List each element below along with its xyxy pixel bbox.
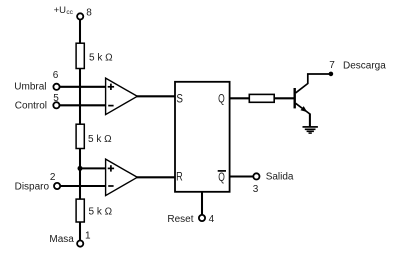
svg-text:Masa: Masa bbox=[49, 234, 74, 245]
terminal Control pin 5 bbox=[15, 93, 60, 112]
wire: bus R1 bottom to R2 top bbox=[79, 68, 81, 124]
terminal Masa pin 1 bbox=[49, 231, 91, 247]
svg-text:2: 2 bbox=[50, 172, 56, 183]
svg-text:8: 8 bbox=[86, 8, 92, 19]
op-amp U1 comparator bbox=[106, 78, 138, 115]
terminal Reset pin 4 bbox=[167, 214, 214, 225]
svg-text:R: R bbox=[176, 171, 183, 183]
resistor R4 base resistor bbox=[249, 94, 274, 102]
wire: Qbar output to Salida terminal bbox=[230, 175, 254, 177]
wire: Umbral (pin 6) to comparator U1 + input bbox=[60, 86, 106, 88]
wire: R4 to transistor base bbox=[274, 97, 294, 99]
svg-text:Umbral: Umbral bbox=[14, 81, 46, 92]
terminal Umbral pin 6 bbox=[14, 70, 59, 92]
svg-text:Reset: Reset bbox=[167, 214, 193, 225]
ground bbox=[303, 127, 318, 133]
svg-text:5 k Ω: 5 k Ω bbox=[88, 134, 112, 145]
svg-text:Control: Control bbox=[15, 101, 47, 112]
terminal +Ucc pin 8 bbox=[54, 5, 93, 20]
resistor R3 5k bbox=[76, 199, 113, 222]
svg-text:Q: Q bbox=[218, 93, 225, 105]
wire: divider node to comparator U2 + input bbox=[80, 167, 106, 169]
svg-text:1: 1 bbox=[85, 231, 91, 242]
svg-text:4: 4 bbox=[209, 214, 215, 225]
svg-text:Salida: Salida bbox=[266, 172, 294, 183]
wire: R3 bottom to Masa terminal bbox=[79, 222, 81, 241]
svg-text:3: 3 bbox=[253, 184, 259, 195]
op-amp U2 comparator bbox=[106, 159, 138, 196]
terminal Descarga pin 7 bbox=[329, 60, 387, 76]
svg-text:5 k Ω: 5 k Ω bbox=[89, 52, 113, 63]
resistor R1 5k bbox=[76, 43, 113, 68]
svg-text:5 k Ω: 5 k Ω bbox=[89, 206, 113, 217]
wire: Control (pin 5) to comparator U1 - input bbox=[60, 104, 106, 106]
wire: Q output to R4 bbox=[230, 97, 250, 99]
svg-text:6: 6 bbox=[53, 70, 59, 81]
wire: pin8 to R1 bbox=[79, 19, 81, 43]
svg-text:Q: Q bbox=[218, 172, 225, 184]
wire: comparator U1 output to S bbox=[137, 95, 176, 97]
wire: comparator U2 output to R bbox=[137, 176, 176, 178]
svg-text:+U: +U bbox=[54, 5, 67, 16]
svg-text:cc: cc bbox=[66, 9, 73, 16]
resistor R2 5k bbox=[76, 124, 112, 148]
transistor Q1 bbox=[295, 74, 331, 127]
wire: Disparo (pin 2) to comparator U2 - input bbox=[60, 185, 106, 187]
svg-text:7: 7 bbox=[329, 60, 335, 71]
wire: Reset stub from flip-flop bottom bbox=[201, 192, 203, 215]
flip-flop U3 bbox=[175, 82, 230, 192]
terminal Salida pin 3 bbox=[253, 172, 294, 195]
terminal Disparo pin 2 bbox=[15, 172, 61, 193]
svg-text:Disparo: Disparo bbox=[15, 182, 50, 193]
svg-text:S: S bbox=[176, 93, 183, 105]
junction node: divider to U2 + input bbox=[78, 166, 83, 171]
wire: bus R2 bottom to R3 top bbox=[79, 148, 81, 199]
svg-text:5: 5 bbox=[53, 93, 59, 104]
svg-text:Descarga: Descarga bbox=[343, 60, 386, 71]
